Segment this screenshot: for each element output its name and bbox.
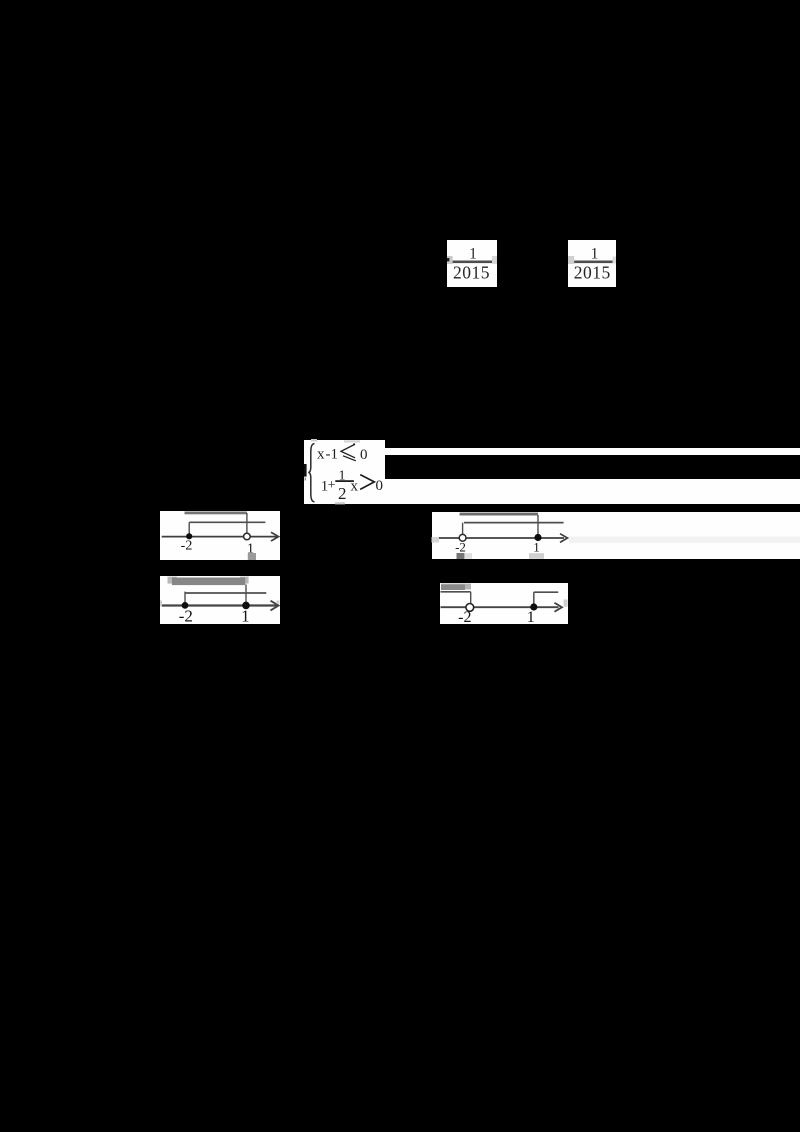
vertical at 1 bbox=[245, 585, 247, 606]
filled dot -2 bbox=[182, 602, 189, 609]
svg-text:-2: -2 bbox=[458, 609, 471, 626]
open circle -2 bbox=[466, 604, 474, 612]
svg-text:x: x bbox=[351, 478, 359, 494]
vertical at 1 bbox=[537, 515, 539, 534]
number line bbox=[162, 536, 278, 538]
thick gray bar bbox=[460, 513, 538, 516]
half-line from left edge bbox=[441, 591, 471, 593]
right-edge nub bbox=[564, 600, 568, 607]
fraction F1 1/2015 (left) bbox=[447, 240, 497, 287]
number line bbox=[439, 537, 564, 539]
figure A (top-left number line) bbox=[160, 511, 280, 560]
side nubs bbox=[160, 600, 162, 606]
svg-text:1: 1 bbox=[527, 609, 535, 626]
arrowhead bbox=[271, 601, 279, 611]
svg-text:2015: 2015 bbox=[453, 263, 490, 283]
number line bbox=[161, 604, 277, 606]
svg-text:+: + bbox=[328, 478, 336, 493]
arrowhead bbox=[560, 534, 568, 543]
open circle 1 bbox=[244, 533, 251, 540]
svg-text:1: 1 bbox=[591, 246, 599, 263]
svg-text:-2: -2 bbox=[179, 607, 193, 626]
thin segment bbox=[185, 592, 266, 594]
svg-text:1: 1 bbox=[533, 540, 540, 555]
open circle -2 bbox=[459, 534, 466, 541]
left brace bbox=[308, 444, 314, 502]
svg-text:-1: -1 bbox=[326, 447, 339, 463]
light nubs at bar ends bbox=[168, 577, 177, 584]
svg-text:0: 0 bbox=[360, 447, 368, 463]
white strip line1 bbox=[385, 448, 800, 455]
handles bbox=[457, 553, 465, 559]
svg-text:0: 0 bbox=[376, 478, 384, 494]
arrowhead bbox=[271, 532, 279, 541]
filled dot 1 bbox=[242, 602, 250, 610]
arrowhead bbox=[555, 603, 563, 612]
white strip line2 bbox=[385, 479, 800, 504]
svg-text:x: x bbox=[317, 447, 325, 463]
handle below 1 bbox=[248, 553, 256, 560]
vertical at 1 bbox=[533, 592, 535, 607]
faint stripe bbox=[569, 537, 800, 544]
filled dot 1 bbox=[534, 534, 541, 541]
thin segment bbox=[464, 522, 564, 524]
system contents bbox=[304, 440, 385, 504]
filled dot -2 bbox=[186, 533, 192, 539]
gray bar top-left bbox=[441, 584, 471, 590]
fraction F2 1/2015 (right) bbox=[568, 240, 616, 287]
figure B (top-right number line, white band to right edge) bbox=[432, 512, 800, 559]
figure D (bottom-right number line) bbox=[440, 583, 568, 624]
svg-text:2015: 2015 bbox=[574, 263, 611, 283]
gray edge marks bbox=[311, 439, 317, 441]
vertical at -2 bbox=[184, 592, 186, 606]
svg-text:2: 2 bbox=[338, 484, 347, 503]
thick dark bar bbox=[172, 578, 245, 586]
vertical at -2 bbox=[188, 522, 190, 536]
vertical at -2 bbox=[462, 523, 464, 535]
svg-text:1: 1 bbox=[469, 246, 477, 263]
svg-text:1: 1 bbox=[241, 607, 250, 626]
thin segment bbox=[189, 521, 265, 523]
thick gray bar bbox=[185, 512, 248, 515]
svg-text:-2: -2 bbox=[181, 539, 193, 554]
filled dot 1 bbox=[530, 603, 537, 610]
horizontal ray at 1 bbox=[534, 591, 558, 593]
inequality system box bbox=[304, 440, 385, 504]
figure C (bottom-left number line) bbox=[160, 576, 280, 624]
vertical at 1 bbox=[246, 513, 248, 533]
number line bbox=[441, 606, 559, 608]
svg-text:-2: -2 bbox=[455, 540, 466, 555]
black left-edge notch bbox=[304, 464, 307, 477]
vertical at -2 bbox=[470, 592, 472, 604]
